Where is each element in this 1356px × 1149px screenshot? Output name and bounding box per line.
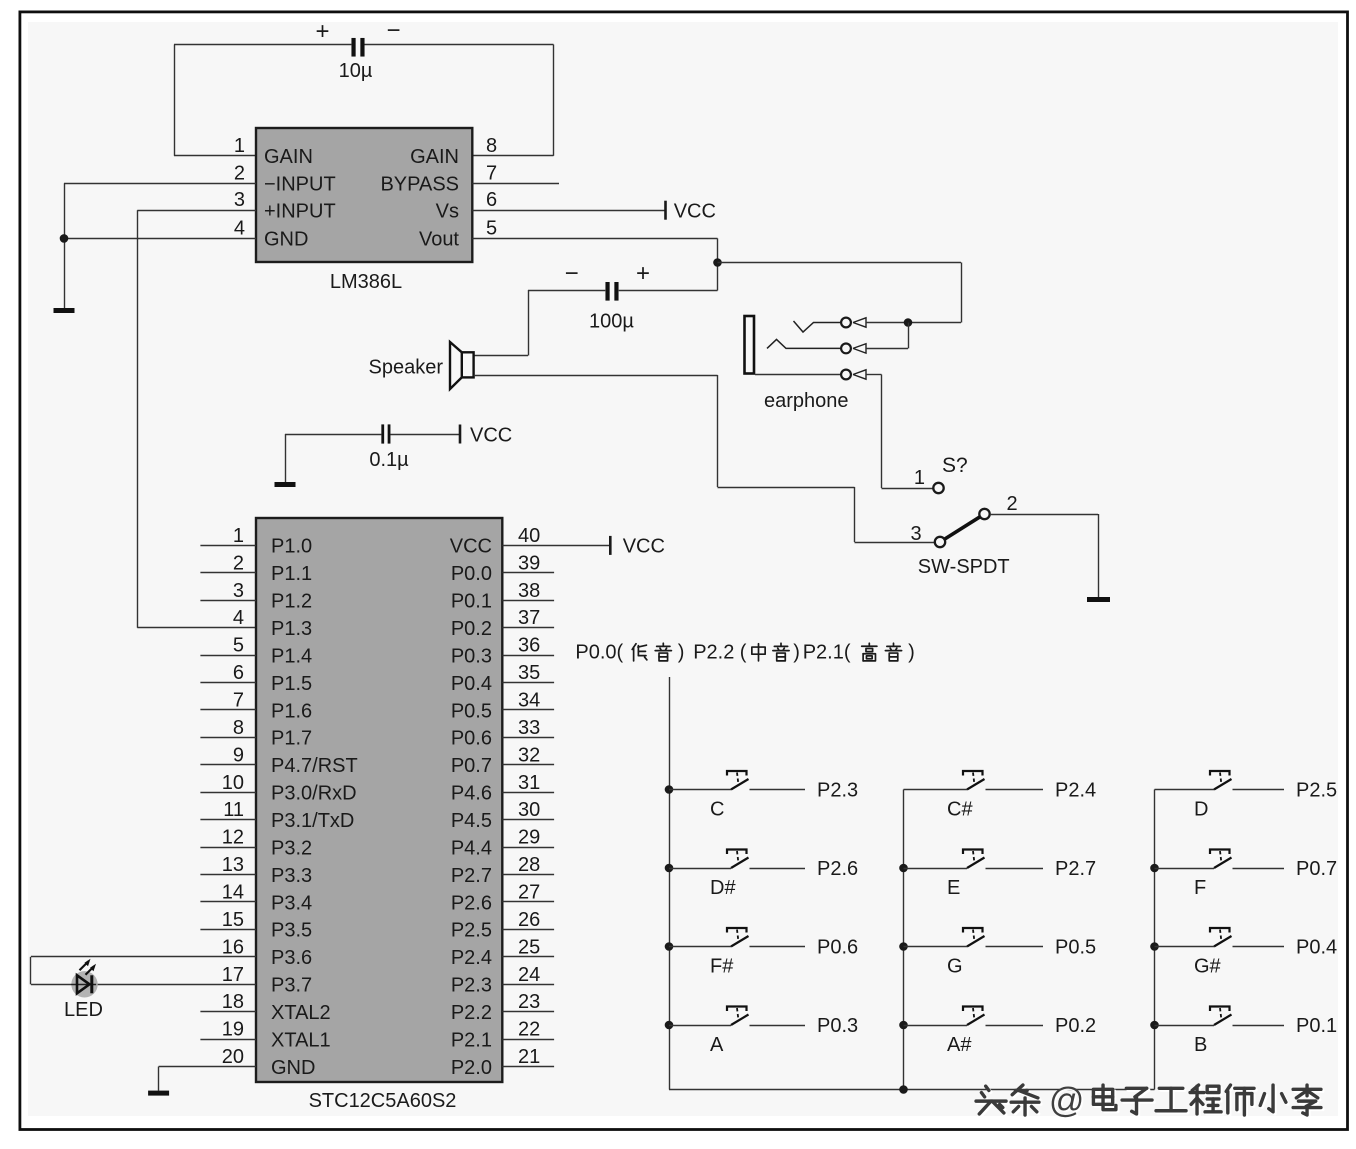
svg-text:P3.5: P3.5	[271, 920, 312, 942]
pin 38 P0.1	[502, 580, 554, 602]
pin 1 P1.0	[200, 525, 256, 547]
svg-text:−: −	[565, 260, 579, 287]
svg-text:LM386L: LM386L	[330, 271, 402, 293]
svg-text:P4.7/RST: P4.7/RST	[271, 755, 358, 777]
pin 7 P1.6	[200, 689, 256, 711]
svg-text:P0.0(: P0.0(	[575, 642, 623, 664]
svg-text:P2.6: P2.6	[451, 892, 492, 914]
svg-text:P0.4: P0.4	[451, 673, 492, 695]
wire tone bus 1	[669, 677, 671, 1090]
VCC symbol	[460, 424, 512, 446]
pin 35 P0.4	[502, 662, 554, 684]
svg-text:3: 3	[234, 189, 245, 211]
wire to contact2	[866, 323, 909, 349]
wire +INPUT down to MCU P1.3	[137, 210, 256, 628]
pin 13 P3.3	[200, 854, 256, 876]
pin 8 P1.7	[200, 717, 256, 739]
svg-text:B: B	[1194, 1034, 1207, 1056]
svg-text:P2.5: P2.5	[1296, 780, 1337, 802]
svg-text:33: 33	[518, 717, 540, 739]
svg-text:P0.5: P0.5	[451, 700, 492, 722]
svg-text:13: 13	[222, 854, 244, 876]
node bus1 row2	[665, 864, 674, 873]
pin 11 P3.1/TxD	[200, 799, 256, 821]
node bus2 row3	[899, 942, 908, 951]
pin 5 P1.4	[200, 635, 256, 657]
pin 9 P4.7/RST	[200, 744, 256, 766]
svg-text:VCC: VCC	[470, 424, 512, 446]
svg-text:P3.7: P3.7	[271, 975, 312, 997]
pin 10 P3.0/RxD	[200, 772, 256, 794]
pin 4	[64, 217, 256, 239]
svg-text:38: 38	[518, 580, 540, 602]
pin 4 P1.3	[233, 607, 244, 629]
svg-text:P2.3: P2.3	[817, 780, 858, 802]
svg-text:P2.7: P2.7	[1055, 858, 1096, 880]
pin 21 P2.0	[502, 1046, 554, 1068]
svg-text:1: 1	[234, 135, 245, 157]
svg-text:GAIN: GAIN	[410, 146, 459, 168]
svg-text:2: 2	[1006, 493, 1017, 515]
svg-text:P1.4: P1.4	[271, 645, 312, 667]
svg-text:): )	[793, 642, 800, 664]
svg-text:6: 6	[486, 189, 497, 211]
switch D	[1155, 771, 1285, 790]
svg-text:34: 34	[518, 689, 540, 711]
wire pin1 GAIN to C1	[174, 45, 351, 156]
pin 27 P2.6	[502, 881, 554, 903]
svg-text:E: E	[947, 877, 960, 899]
pin 29 P4.4	[502, 827, 554, 849]
svg-text:G: G	[947, 956, 963, 978]
svg-text:−: −	[386, 17, 400, 44]
svg-text:P0.3: P0.3	[451, 645, 492, 667]
wire contact3 to switch pin1	[866, 375, 933, 489]
switch F#	[669, 928, 805, 947]
svg-text:P2.3: P2.3	[451, 975, 492, 997]
svg-text:P2.6: P2.6	[817, 858, 858, 880]
svg-text:24: 24	[518, 964, 540, 986]
svg-text:P3.4: P3.4	[271, 892, 312, 914]
svg-text:LED: LED	[64, 999, 103, 1021]
svg-text:XTAL1: XTAL1	[271, 1029, 331, 1051]
wire contact1 net	[866, 322, 961, 324]
svg-text:P0.2: P0.2	[1055, 1015, 1096, 1037]
wire speaker bottom to SW-SPDT pin3	[474, 375, 935, 543]
capacitor C2 100u	[565, 260, 650, 333]
wire Vout to earphone	[718, 263, 962, 323]
svg-text:3: 3	[910, 523, 921, 545]
svg-text:P2.4: P2.4	[451, 947, 492, 969]
svg-text:P0.7: P0.7	[1296, 858, 1337, 880]
pin 28 P2.7	[502, 854, 554, 876]
earphone jack body	[745, 316, 755, 374]
microcontroller U2 STC12C5A60S2	[256, 518, 502, 1082]
contact circle 2	[841, 344, 851, 354]
svg-text:P0.7: P0.7	[451, 755, 492, 777]
svg-text:8: 8	[233, 717, 244, 739]
speaker	[450, 342, 474, 389]
VCC symbol at pin 40	[610, 536, 665, 558]
svg-text:−INPUT: −INPUT	[264, 174, 336, 196]
svg-text:1: 1	[914, 467, 925, 489]
svg-text:GND: GND	[264, 229, 308, 251]
svg-text:P0.6: P0.6	[817, 937, 858, 959]
svg-text:SW-SPDT: SW-SPDT	[918, 556, 1010, 578]
ground	[148, 1091, 169, 1096]
svg-text:S?: S?	[942, 454, 968, 477]
svg-text:21: 21	[518, 1046, 540, 1068]
pin 15 P3.5	[200, 909, 256, 931]
svg-text:10µ: 10µ	[339, 60, 373, 82]
pin 17 P3.7	[96, 964, 256, 986]
svg-text:): )	[678, 642, 685, 664]
svg-text:P1.1: P1.1	[271, 563, 312, 585]
switch B	[1155, 1007, 1285, 1026]
pin 5 Vout wire	[472, 217, 717, 239]
wire pin2 to ground	[990, 514, 1099, 597]
svg-text:F#: F#	[710, 956, 734, 978]
svg-text:VCC: VCC	[674, 201, 716, 223]
svg-text:P2.4: P2.4	[1055, 780, 1096, 802]
switch G#	[1155, 928, 1285, 947]
svg-text:earphone: earphone	[764, 390, 849, 412]
pin 25 P2.4	[502, 936, 554, 958]
node bus3 row3	[1150, 942, 1159, 951]
VCC symbol at Vs	[666, 201, 716, 223]
pin 18 XTAL2	[200, 991, 256, 1013]
svg-text:P1.5: P1.5	[271, 673, 312, 695]
arrow 2	[853, 344, 866, 353]
svg-text:30: 30	[518, 799, 540, 821]
svg-text:D#: D#	[710, 877, 736, 899]
svg-text:P1.3: P1.3	[271, 618, 312, 640]
pin 2 P1.1	[200, 552, 256, 574]
svg-text:39: 39	[518, 552, 540, 574]
switch C#	[904, 771, 1044, 790]
node bus1 row1	[665, 785, 674, 794]
svg-text:5: 5	[233, 635, 244, 657]
wire bottom bus	[669, 1089, 1155, 1091]
svg-text:16: 16	[222, 936, 244, 958]
wire tone bus 3	[1154, 790, 1156, 1090]
svg-text:P4.5: P4.5	[451, 810, 492, 832]
switch A#	[904, 1007, 1044, 1026]
svg-text:): )	[908, 642, 915, 664]
pin 6 P1.5	[200, 662, 256, 684]
svg-text:27: 27	[518, 881, 540, 903]
capacitor C1 10u	[315, 17, 400, 82]
svg-text:4: 4	[234, 217, 245, 239]
wire tone bus 2	[903, 790, 905, 1090]
svg-text:20: 20	[222, 1046, 244, 1068]
svg-text:36: 36	[518, 635, 540, 657]
svg-text:D: D	[1194, 799, 1208, 821]
svg-text:C: C	[710, 799, 724, 821]
svg-text:1: 1	[233, 525, 244, 547]
svg-text:19: 19	[222, 1019, 244, 1041]
svg-text:23: 23	[518, 991, 540, 1013]
svg-text:3: 3	[233, 580, 244, 602]
svg-text:P0.0: P0.0	[451, 563, 492, 585]
node bus3 row2	[1150, 864, 1159, 873]
svg-text:P4.4: P4.4	[451, 837, 492, 859]
svg-text:P2.1: P2.1	[451, 1029, 492, 1051]
svg-text:100µ: 100µ	[589, 311, 634, 333]
contact spring 2	[767, 339, 841, 348]
svg-text:12: 12	[222, 827, 244, 849]
wire C2 right to Vout node	[619, 290, 718, 292]
node bus1 row3	[665, 942, 674, 951]
svg-text:37: 37	[518, 607, 540, 629]
wire pin8 GAIN to C1	[365, 45, 554, 156]
wire -INPUT/GND to ground	[64, 183, 66, 308]
svg-text:VCC: VCC	[623, 536, 665, 558]
svg-text:Speaker: Speaker	[369, 357, 444, 379]
pin 40 VCC	[502, 525, 610, 547]
contact circle 3	[841, 370, 851, 380]
node junction	[60, 234, 69, 243]
svg-text:P1.0: P1.0	[271, 536, 312, 558]
arrow 3	[853, 370, 866, 379]
ground	[1087, 597, 1110, 602]
pin 7 BYPASS wire	[472, 162, 559, 184]
svg-text:35: 35	[518, 662, 540, 684]
svg-text:25: 25	[518, 936, 540, 958]
pin 23 P2.2	[502, 991, 554, 1013]
svg-text:0.1µ: 0.1µ	[369, 449, 409, 471]
pin 12 P3.2	[200, 827, 256, 849]
contact spring 1	[794, 321, 842, 332]
capacitor C3 0.1u	[369, 424, 409, 471]
LED D1	[71, 959, 98, 998]
svg-text:G#: G#	[1194, 956, 1222, 978]
svg-text:BYPASS: BYPASS	[380, 174, 459, 196]
pin 14 P3.4	[200, 881, 256, 903]
svg-text:28: 28	[518, 854, 540, 876]
pin 36 P0.3	[502, 635, 554, 657]
label P0.0/P2.2/P2.1 tone header	[575, 642, 914, 664]
node Vout junction	[713, 258, 722, 267]
svg-text:P2.2: P2.2	[451, 1002, 492, 1024]
svg-text:P0.5: P0.5	[1055, 937, 1096, 959]
switch A	[669, 1007, 805, 1026]
pin 6 Vs wire	[472, 189, 665, 211]
svg-text:+INPUT: +INPUT	[264, 201, 336, 223]
svg-text:P0.2: P0.2	[451, 618, 492, 640]
svg-text:P0.4: P0.4	[1296, 937, 1337, 959]
pin 39 P0.0	[502, 552, 554, 574]
svg-text:P3.6: P3.6	[271, 947, 312, 969]
switch F	[1155, 850, 1285, 869]
ground	[275, 482, 296, 487]
node bottom junction	[899, 1085, 908, 1094]
switch E	[904, 850, 1044, 869]
svg-text:P0.6: P0.6	[451, 728, 492, 750]
svg-text:11: 11	[223, 799, 244, 821]
switch G	[904, 928, 1044, 947]
node bus2 row4	[899, 1021, 908, 1030]
pin 37 P0.2	[502, 607, 554, 629]
svg-text:GND: GND	[271, 1057, 315, 1079]
watermark toutiao	[976, 1081, 1323, 1122]
svg-text:22: 22	[518, 1019, 540, 1041]
node bus2 row2	[899, 864, 908, 873]
svg-text:32: 32	[518, 744, 540, 766]
svg-text:P0.1: P0.1	[1296, 1015, 1337, 1037]
svg-text:F: F	[1194, 877, 1206, 899]
svg-text:@: @	[1049, 1081, 1085, 1120]
svg-text:+: +	[315, 18, 329, 45]
pin 3	[137, 189, 256, 211]
svg-text:6: 6	[233, 662, 244, 684]
wire jack sleeve to contact 3	[755, 374, 841, 376]
svg-text:5: 5	[486, 217, 497, 239]
svg-text:P2.7: P2.7	[451, 865, 492, 887]
svg-text:P0.3: P0.3	[817, 1015, 858, 1037]
svg-text:P2.2: P2.2	[693, 642, 734, 664]
svg-text:29: 29	[518, 827, 540, 849]
svg-text:4: 4	[233, 607, 244, 629]
svg-text:9: 9	[233, 744, 244, 766]
svg-text:P1.2: P1.2	[271, 591, 312, 613]
contact circle 1	[841, 318, 851, 328]
node bus3 row4	[1150, 1021, 1159, 1030]
svg-text:XTAL2: XTAL2	[271, 1002, 331, 1024]
switch C	[669, 771, 805, 790]
svg-text:P3.2: P3.2	[271, 837, 312, 859]
pin 30 P4.5	[502, 799, 554, 821]
pin 33 P0.6	[502, 717, 554, 739]
switch D#	[669, 850, 805, 869]
svg-text:P1.7: P1.7	[271, 728, 312, 750]
wire GND pin20 to ground	[158, 1067, 160, 1091]
wire C3 left to ground	[285, 434, 381, 482]
svg-text:P3.1/TxD: P3.1/TxD	[271, 810, 354, 832]
arrow 1	[853, 318, 866, 327]
svg-text:18: 18	[222, 991, 244, 1013]
pin 19 XTAL1	[200, 1019, 256, 1041]
svg-text:2: 2	[234, 162, 245, 184]
svg-text:VCC: VCC	[450, 536, 492, 558]
svg-text:(: (	[740, 642, 747, 664]
pin 3 P1.2	[200, 580, 256, 602]
svg-text:P2.5: P2.5	[451, 920, 492, 942]
svg-text:STC12C5A60S2: STC12C5A60S2	[309, 1090, 457, 1112]
pin 22 P2.1	[502, 1019, 554, 1041]
svg-text:P2.0: P2.0	[451, 1057, 492, 1079]
svg-text:P3.0/RxD: P3.0/RxD	[271, 783, 357, 805]
pin 20 GND	[159, 1046, 256, 1068]
svg-text:Vout: Vout	[419, 229, 459, 251]
svg-text:17: 17	[222, 964, 244, 986]
op-amp U1 LM386L	[256, 128, 472, 262]
wire Vout vertical	[717, 238, 719, 290]
svg-text:14: 14	[222, 881, 244, 903]
svg-text:2: 2	[233, 552, 244, 574]
svg-text:31: 31	[518, 772, 540, 794]
svg-text:8: 8	[486, 135, 497, 157]
wire C2 left to speaker top	[474, 290, 606, 356]
pin 2	[64, 162, 256, 184]
svg-text:10: 10	[222, 772, 244, 794]
node bus1 row4	[665, 1021, 674, 1030]
wire P3.6 loop to LED	[31, 957, 72, 985]
wire C3 right to VCC	[390, 434, 460, 436]
node contact junction	[904, 318, 913, 327]
svg-text:15: 15	[222, 909, 244, 931]
svg-text:7: 7	[486, 162, 497, 184]
svg-text:40: 40	[518, 525, 540, 547]
svg-text:26: 26	[518, 909, 540, 931]
ground	[54, 308, 75, 313]
svg-text:Vs: Vs	[436, 201, 459, 223]
pin 34 P0.5	[502, 689, 554, 711]
svg-text:7: 7	[233, 689, 244, 711]
svg-text:P1.6: P1.6	[271, 700, 312, 722]
svg-text:GAIN: GAIN	[264, 146, 313, 168]
pin 24 P2.3	[502, 964, 554, 986]
svg-text:P2.1(: P2.1(	[803, 642, 851, 664]
pin 32 P0.7	[502, 744, 554, 766]
pin 26 P2.5	[502, 909, 554, 931]
svg-text:C#: C#	[947, 799, 973, 821]
svg-text:A#: A#	[947, 1034, 972, 1056]
svg-text:P0.1: P0.1	[451, 591, 492, 613]
pin 31 P4.6	[502, 772, 554, 794]
svg-text:+: +	[636, 260, 650, 287]
svg-text:P4.6: P4.6	[451, 783, 492, 805]
pin 16 P3.6	[31, 936, 256, 958]
switch S? SW-SPDT	[933, 483, 989, 547]
svg-text:A: A	[710, 1034, 724, 1056]
svg-text:P3.3: P3.3	[271, 865, 312, 887]
